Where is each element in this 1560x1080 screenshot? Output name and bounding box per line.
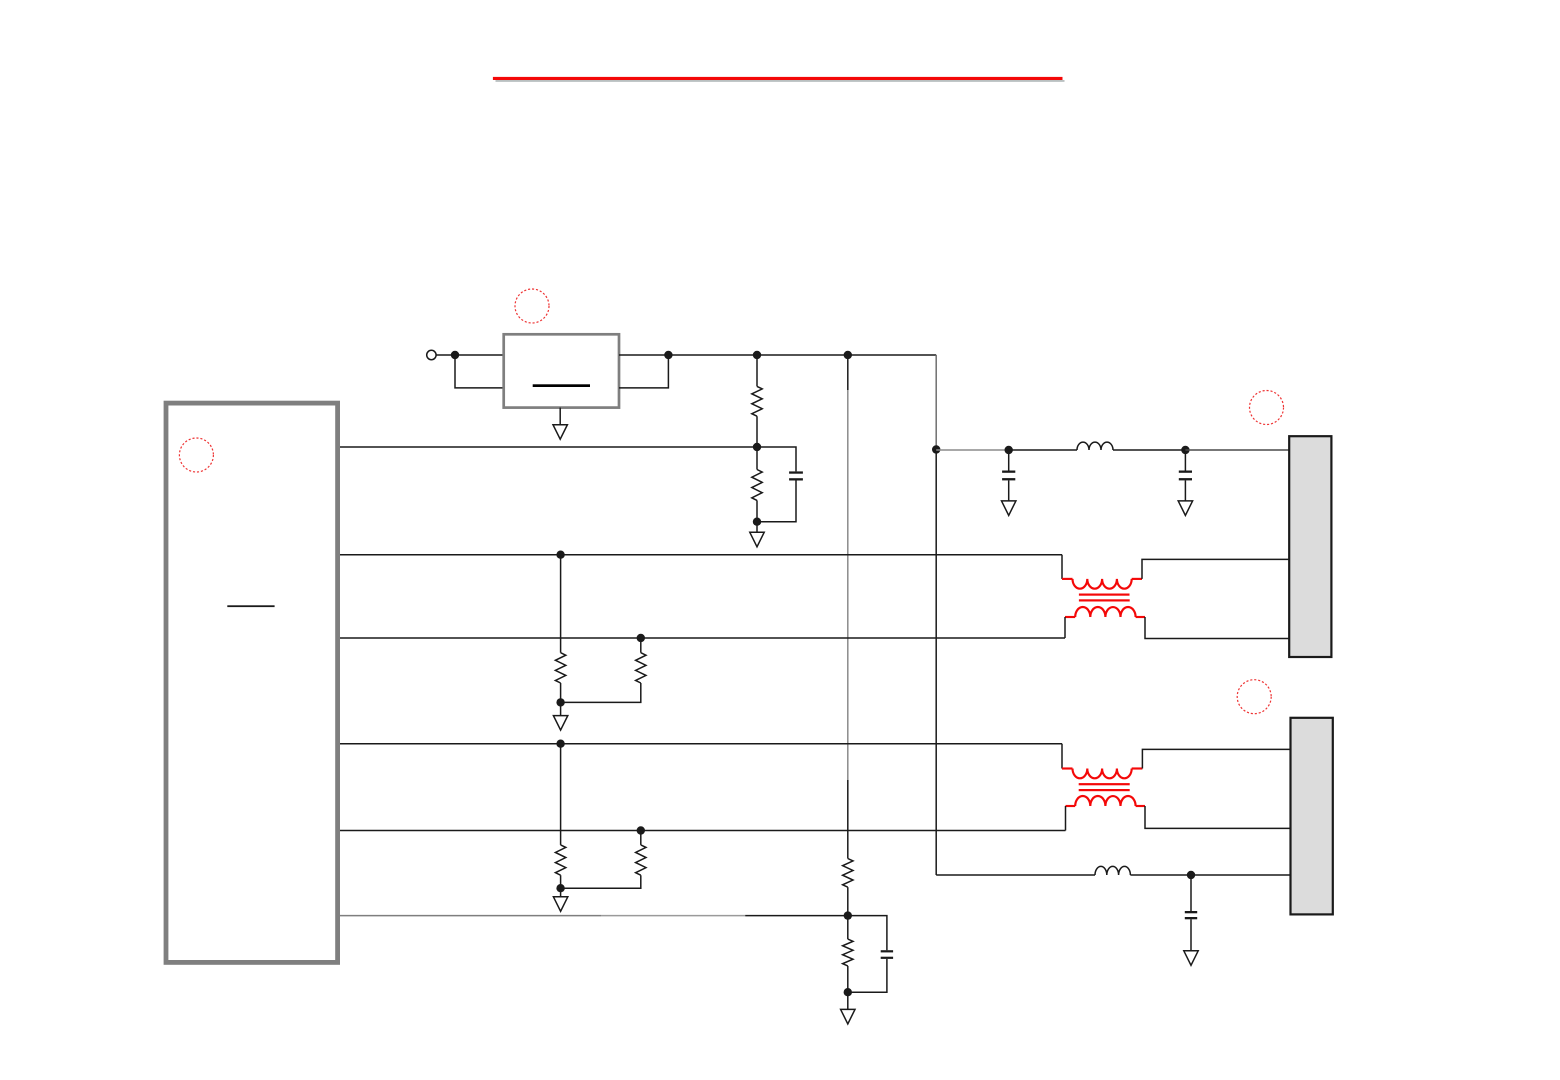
wire: R6 lower lead [561,875,641,888]
wire: U2 GND lead [559,408,561,425]
wire 6: U1 pin 6 (gray, outer) [601,915,745,917]
wire: divider-1 gnd lead [560,702,562,715]
node: wire2/R3 junction [556,551,564,559]
wire: C1 branch bottom [757,481,796,522]
wire: R6 upper lead [640,831,642,845]
T1 core line 2 [1079,599,1130,601]
wire: rail drop to R7 (gray mid) [847,390,849,780]
resistor R7 [843,859,853,888]
connector J2 [1291,718,1333,915]
input terminal J0 (open circle) [427,350,436,359]
wire: T1 secondary-right step [1145,617,1289,639]
U2 internal label line [533,384,590,387]
node: U2 output junction [664,351,672,359]
node: C2 junction [1005,446,1013,454]
wire: rail drop to R7 (lower) [847,780,849,859]
node: wire4/R5 junction [556,740,564,748]
resistor R3 [555,653,565,683]
wire: G1 lead [756,522,758,533]
wire: C4 branch top [848,916,887,951]
U1 internal label line [227,605,274,607]
capacitor C3 [1179,471,1192,473]
wire: +V rail [668,354,936,356]
node: rail / R7 branch [844,351,852,359]
resistor R8 [843,939,853,966]
wire: R3 lower lead [560,683,562,702]
resistor R5 [555,845,565,875]
T1 secondary winding (red) [1065,616,1075,618]
wire 4: U1 pin 4 to T2 primary top [340,743,1062,745]
inductor L2 [1095,866,1130,875]
node: VS1 junction [753,443,761,451]
wire: EMI feed (gray) [936,449,1009,451]
wire: R4 lower lead [561,683,641,702]
ground: C2 [1002,501,1016,516]
wire: T2 primary-top step [1061,744,1063,769]
node: VS2 junction [844,911,852,919]
ground: C5 [1184,951,1198,966]
wire: T2 primary-top right step [1142,749,1290,768]
T2 secondary winding (red) [1066,805,1076,807]
node: G1 junction [753,518,761,526]
wire: C2 to L1 [1009,449,1077,451]
wire: T2 secondary-left step [1065,806,1067,831]
wire: C3 lead [1184,450,1186,471]
wire: C4 branch bottom [848,959,887,992]
resistor R6 [636,845,646,875]
wire 6: U1 pin 6 (black part) [745,915,848,917]
node: wire3/R4 junction [637,634,645,642]
wire: G2 lead [847,992,849,1009]
wire: L2 to connector J2 [1130,874,1290,876]
node: G2 junction [844,988,852,996]
wire 5: U1 pin 5 to T2 primary bottom [340,830,1066,832]
ground: C3 [1178,501,1192,516]
T2 core line 2 [1079,789,1130,791]
wire: C1 branch top [757,447,796,471]
inductor L1 [1077,442,1113,450]
wire: T1 primary-top right step [1142,559,1289,579]
capacitor C5 [1185,911,1197,913]
wire: rail drop to R7 (upper) [847,355,849,390]
wire: terminal to U2 VIN [436,354,504,356]
wire: rail corner drop x936 (lower) [935,450,937,875]
wire 6: U1 pin 6 (gray, inner) [340,915,601,917]
wire: U2 output [619,354,668,356]
annotation circle A4 above J2 [1237,680,1271,714]
wire: C2 lower lead [1008,480,1010,501]
node: R5/R6 junction [556,884,564,892]
ground: divider 2 [553,897,567,912]
wire: R7 to node VS2 [847,887,849,915]
T1 core line 1 [1079,594,1130,596]
wire: rail to R1 [756,355,758,386]
ground: divider 1 [553,716,567,731]
T2 core line 1 [1079,783,1130,785]
node: regulator input junction [451,351,459,359]
wire: R5 lower lead [560,875,562,888]
ground: RC network 1 [750,532,764,547]
wire: C3 lower lead [1184,480,1186,501]
title underline (red rule) [493,77,1063,80]
wire: C5 lower lead [1190,919,1192,951]
node: R3/R4 junction [556,698,564,706]
wire: divider-2 gnd lead [560,888,562,897]
wire: T1 secondary-left step [1064,617,1066,638]
resistor R4 [636,653,646,683]
wire: R3 upper lead [560,555,562,653]
connector J1 [1289,436,1331,657]
resistor R1 [752,386,762,416]
annotation circle A1 above U2 [515,289,549,323]
op-amp/controller IC U1 body [166,403,338,962]
wire: C3 to connector J1 [1185,449,1289,451]
wire: node VS1 to R2 [756,447,758,470]
wire: R1 to node VS1 [756,416,758,447]
wire: C5 lead [1190,875,1192,911]
ground: RC network 2 [841,1009,855,1024]
title underline shadow [496,80,1065,82]
wire: R2 to node G1 [756,500,758,521]
wire: R8 to node G2 [847,966,849,992]
wire: T2 secondary-right step [1145,806,1291,828]
wire: L1 to C3 [1113,449,1185,451]
voltage regulator U2 body [504,334,619,407]
T2 primary winding (red) [1062,767,1073,769]
node: C3 junction [1181,446,1189,454]
wire: C2 lead [1008,450,1010,471]
wire: node VS2 to R8 [847,916,849,940]
ground: U2 [553,425,567,440]
node: C5 junction [1187,871,1195,879]
capacitor C1 [789,471,803,473]
node: EMI feed junction [932,445,940,453]
annotation circle A3 above J1 [1250,391,1284,425]
wire: R5 upper lead [560,744,562,845]
node: rail / R1 [753,351,761,359]
wire: U2 output lower loop [619,355,668,388]
wire: U2 input lower loop [455,355,504,388]
capacitor C4 [881,950,893,952]
wire 3: U1 pin 3 to T1 primary bottom [340,637,1065,639]
wire: R4 upper lead [640,638,642,653]
capacitor C2 [1002,471,1015,473]
wire 2: U1 pin 2 to T1 primary top [340,554,1062,556]
wire: bottom rail to L2 [936,874,1095,876]
wire 1: U1 pin 1 to node VS1 [340,446,757,448]
T1 primary winding (red) [1062,578,1073,580]
node: wire5/R6 junction [637,826,645,834]
wire: rail corner drop x936 (upper, gray) [935,355,937,450]
wire: T1 primary-top step [1061,555,1063,579]
resistor R2 [752,470,762,501]
annotation circle A2 on U1 [179,438,213,472]
